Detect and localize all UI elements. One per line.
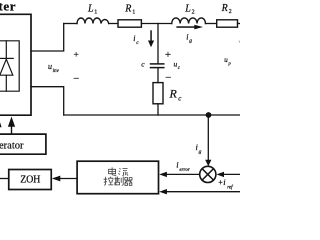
wire: summer output to current controller (i_error) <box>166 173 200 175</box>
arrowhead: feedforward into controller <box>159 189 167 194</box>
svg-text:+: + <box>74 51 79 61</box>
svg-text:erator: erator <box>0 141 24 152</box>
svg-text:2: 2 <box>229 9 232 15</box>
svg-text:ref: ref <box>227 186 233 191</box>
inductor L1 coil <box>77 18 109 23</box>
node dot: ig measurement tap <box>206 112 212 118</box>
svg-text:inv: inv <box>53 68 60 74</box>
svg-text:R: R <box>221 3 228 14</box>
arrowhead: +i_ref into summer <box>216 172 224 177</box>
wire: bottom rail <box>64 114 240 116</box>
wire: L2 to R2 <box>206 23 217 25</box>
svg-text:–: – <box>73 73 80 84</box>
arrowhead: gate signal into inverter <box>8 117 15 127</box>
wire: R1 to L2 through capacitor node <box>141 23 171 25</box>
svg-text:L: L <box>87 4 94 15</box>
svg-text:1: 1 <box>94 10 97 16</box>
svg-text:ZOH: ZOH <box>20 174 40 185</box>
svg-text:1: 1 <box>132 10 135 16</box>
svg-text:g: g <box>199 149 202 155</box>
ZOH block <box>9 170 52 190</box>
resistor R2 body <box>217 20 238 27</box>
svg-text:g: g <box>189 38 192 44</box>
wire: L1 to R1 <box>109 23 118 25</box>
inductor L2 coil <box>172 18 206 24</box>
diode D cathode bar <box>0 57 13 59</box>
PWM generator block (cut off at left edge), label "…erator" <box>0 134 46 154</box>
diode D anode wire <box>5 75 7 91</box>
svg-text:R: R <box>124 4 131 15</box>
wire: controller output to ZOH <box>60 178 77 180</box>
svg-text:R: R <box>169 87 178 101</box>
arrowhead: ig down into summer <box>205 160 211 167</box>
svg-text:error: error <box>179 168 189 173</box>
svg-text:L: L <box>184 4 191 15</box>
current arrow ig (grid current, under L2) <box>176 26 195 28</box>
wire: lower feedforward input from right edge to controller <box>166 191 240 193</box>
diode D triangle (pointing up) <box>0 59 13 75</box>
wire: +i_ref input from right edge to summer <box>224 173 241 175</box>
wire: ig feedback tap down to summer <box>207 115 209 160</box>
current controller block 电流控制器 <box>77 161 158 194</box>
svg-text:i: i <box>133 34 135 43</box>
label: 控制器 (drawn glyphs) <box>104 177 132 186</box>
wire: inverter - terminal stub to bottom bus <box>31 87 64 115</box>
wire: generator gate signal up to inverter <box>11 127 13 135</box>
label: 电流 (drawn glyphs) <box>109 167 129 175</box>
faint cut mark at right edge <box>239 41 240 43</box>
wire: Rc to bottom rail <box>157 104 159 115</box>
resistor R1 body <box>118 20 141 27</box>
arrowhead: into ZOH <box>52 176 61 182</box>
summing junction (multiplier circle with X) <box>200 166 216 182</box>
resistor Rc body (damping resistor) <box>153 83 163 104</box>
capacitor c bottom plate <box>151 67 164 69</box>
svg-text:2: 2 <box>192 10 195 16</box>
arrowhead sliver: second gate arrow cut at left edge <box>0 117 2 127</box>
svg-text:u: u <box>48 62 52 71</box>
diode D inside cell: cathode wire <box>5 41 7 59</box>
svg-text:–: – <box>165 72 172 83</box>
capacitor c top plate <box>151 63 164 65</box>
IGBT/diode cell rectangle inside inverter <box>0 41 19 91</box>
wire: capacitor to Rc <box>157 68 159 83</box>
inverter block (cut off at left edge), label "…ter" <box>0 14 31 115</box>
wire: inverter + terminal stub to bus <box>31 24 64 52</box>
svg-text:i: i <box>186 32 188 41</box>
wire: R2 stub to right edge <box>238 23 241 25</box>
svg-text:+: + <box>165 49 171 61</box>
wire: top rail from bus corner to L1 <box>64 23 77 25</box>
wire: ZOH output to left edge <box>0 178 9 180</box>
svg-text:ter: ter <box>0 0 16 14</box>
wire: capacitor branch upper <box>157 24 159 64</box>
current arrow ic (capacitor current) <box>150 30 152 41</box>
arrowhead: i_error into controller <box>159 172 167 177</box>
